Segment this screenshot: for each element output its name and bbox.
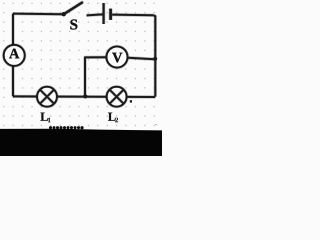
switch S pivot (62, 12, 66, 16)
ink speck below lamp L2 wire (130, 100, 132, 102)
lamp L2 cross (110, 90, 124, 104)
wire switch to battery (87, 14, 103, 15)
ink speck right margin (156, 124, 157, 125)
wire right side (top-right corner down to bottom-right corner) (154, 15, 155, 96)
battery short plate (-) (109, 9, 113, 20)
switch S blade (64, 3, 83, 15)
ammeter A1 letter (9, 49, 19, 59)
wire left side (bottom-left corner up to top-left corner) (11, 14, 14, 97)
lamp L1 cross (40, 90, 54, 104)
lamp L2 body (107, 87, 127, 107)
wire battery to top-right corner (112, 13, 154, 17)
voltmeter V1 letter (112, 53, 122, 63)
lamp L2 label (108, 113, 116, 121)
lamp L1 label (40, 113, 48, 121)
dotted answer-blank line (49, 126, 84, 129)
junction node (voltmeter tap on right wire) (153, 57, 157, 61)
wire voltmeter branch left (junction up and right to voltmeter) (85, 57, 106, 96)
lamp L1 body (37, 87, 57, 107)
wire bottom (bottom-right corner to bottom-left corner) (13, 95, 155, 99)
battery long plate (+) (102, 3, 106, 24)
voltmeter V1 body (107, 47, 128, 68)
ammeter A1 body (4, 45, 25, 66)
wire voltmeter to right side (128, 58, 154, 59)
junction node (voltmeter tap on bottom wire) (83, 94, 87, 98)
black censor bar at bottom (0, 129, 162, 156)
switch S label (70, 19, 77, 29)
wire top-left (battery + to switch) (13, 12, 63, 16)
